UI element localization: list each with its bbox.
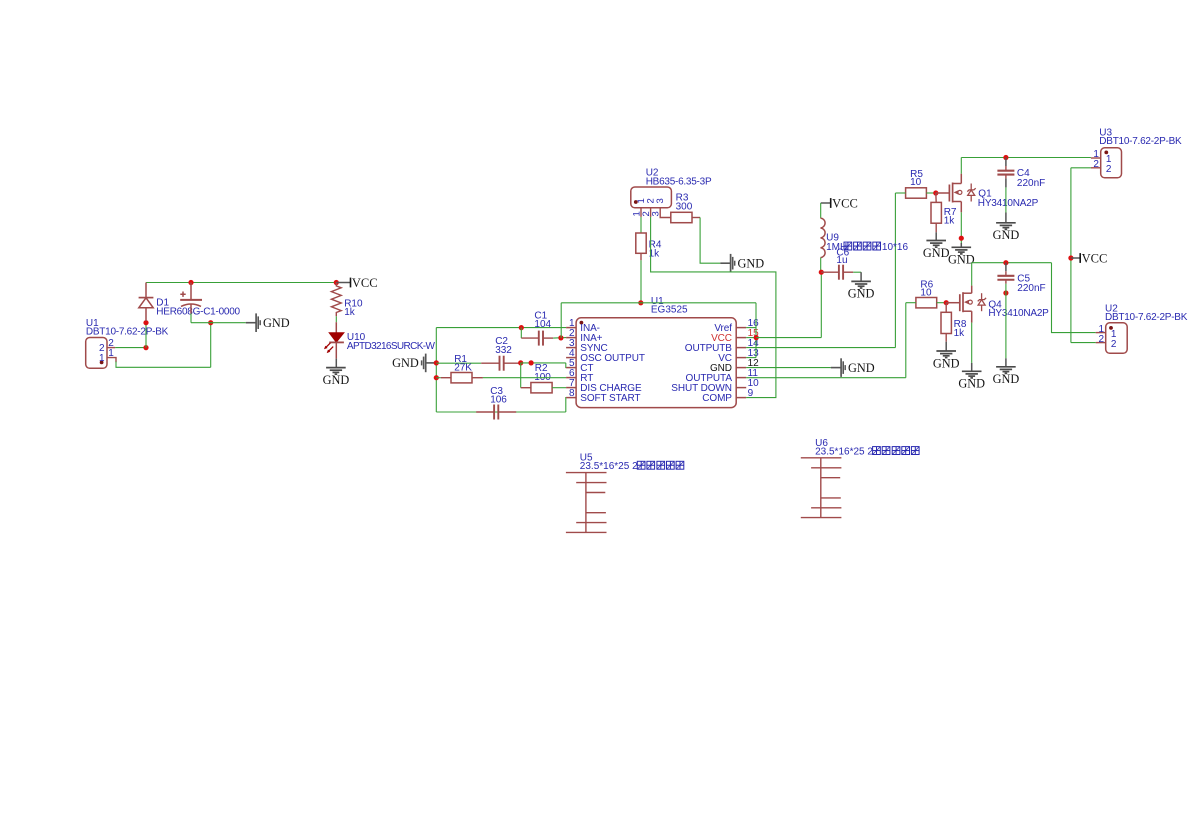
U1 pin 11 stub xyxy=(736,377,746,379)
wire D1 anode vertical xyxy=(145,321,147,348)
svg-text:HY3410NA2P: HY3410NA2P xyxy=(978,198,1039,209)
power flag VCC (U9) xyxy=(821,202,831,204)
svg-text:2: 2 xyxy=(1099,334,1105,345)
U1 pin 3 stub xyxy=(566,347,576,349)
op-amp/controller U1 EG3525 body xyxy=(576,318,736,408)
C5 ground lead xyxy=(1005,358,1007,367)
svg-text:DBT10-7.62-2P-BK: DBT10-7.62-2P-BK xyxy=(1099,136,1182,147)
U1 pin 10 stub xyxy=(736,387,746,389)
U1 pin-1 orientation dot xyxy=(580,321,584,325)
wire R1 left xyxy=(436,377,441,379)
resistor R4 body xyxy=(636,233,646,253)
ground earth GND (Q1 source) xyxy=(952,246,972,248)
svg-text:HY3410NA2P: HY3410NA2P xyxy=(988,308,1049,319)
wire Q1 source down xyxy=(960,212,962,243)
LED U10 xyxy=(335,322,337,332)
wire drain rail to U2 pin1 xyxy=(1052,263,1096,333)
svg-text:1: 1 xyxy=(99,353,105,364)
svg-text:1k: 1k xyxy=(344,307,356,318)
svg-text:VCC: VCC xyxy=(352,276,378,290)
connector U2 pin 2 stub xyxy=(650,208,652,217)
resistor R2 body xyxy=(531,383,552,393)
ground earth GND (R8) xyxy=(936,350,956,352)
connector U2b pin 1 stub xyxy=(1096,332,1106,334)
svg-text:10: 10 xyxy=(920,288,932,299)
C6 ground lead xyxy=(860,272,862,281)
capacitor C4 xyxy=(1005,166,1007,171)
svg-text:VCC: VCC xyxy=(832,196,858,210)
node junction C5 lower xyxy=(1003,290,1008,295)
wire pin1 riser to GND net xyxy=(210,323,212,368)
connector U2b pin-1 orientation dot xyxy=(1109,326,1113,330)
power flag VCC (right) xyxy=(1071,257,1080,259)
svg-text:APTD3216SURCK-W: APTD3216SURCK-W xyxy=(347,341,436,352)
svg-text:220nF: 220nF xyxy=(1017,283,1045,294)
svg-text:EG3525: EG3525 xyxy=(651,305,688,316)
wire bus vertical left of IC xyxy=(435,328,437,412)
svg-text:DBT10-7.62-2P-BK: DBT10-7.62-2P-BK xyxy=(86,327,169,338)
LED ground lead xyxy=(335,359,337,368)
wire GND net horizontal xyxy=(191,322,246,324)
connector U3 pin-1 orientation dot xyxy=(1104,151,1108,155)
wire VCC right riser xyxy=(1070,168,1072,343)
node junction pin2 / vref riser xyxy=(558,335,563,340)
connector U2 (HB635-6.35-3P) body xyxy=(631,187,672,208)
transistor Q4 HY3410NA2P xyxy=(946,302,960,304)
ground earth GND (C4) xyxy=(996,222,1016,224)
diode D1 xyxy=(145,283,147,298)
node junction C2 / R2 tap xyxy=(518,360,523,365)
capacitor C5 top lead xyxy=(1005,263,1007,272)
connector U2 pin 1 stub xyxy=(640,208,642,217)
wire C2 to CT xyxy=(521,362,566,364)
wire R1 to RT xyxy=(483,377,566,379)
wire R6 left xyxy=(906,302,916,304)
ground flag GND (top-left) xyxy=(246,322,256,324)
svg-text:220nF: 220nF xyxy=(1017,178,1045,189)
wire pin12 to GND xyxy=(746,367,831,369)
wire pin15 link xyxy=(746,337,756,339)
svg-text:COMP: COMP xyxy=(702,393,732,404)
svg-text:GND: GND xyxy=(848,361,875,375)
wire cap to GND net xyxy=(190,314,192,323)
U1 pin 5 stub xyxy=(566,367,576,369)
wire VCC rail top-left xyxy=(146,282,336,284)
svg-text:332: 332 xyxy=(495,345,512,356)
capacitor C4 top lead xyxy=(1005,158,1007,167)
wire CT jog xyxy=(565,363,567,368)
U1 pin 7 stub xyxy=(566,387,576,389)
svg-text:1k: 1k xyxy=(954,328,966,339)
connector U2 pin-1 orientation dot xyxy=(634,200,638,204)
wire VCC riser (U9 branch) xyxy=(820,272,822,337)
wire C1 to pin2 xyxy=(553,337,566,340)
connector U1 (DBT10-7.62-2P-BK) body xyxy=(86,338,107,369)
svg-text:3: 3 xyxy=(655,198,666,203)
inductor U9 top lead xyxy=(820,203,822,218)
resistor R4 bottom lead xyxy=(640,253,642,260)
node junction D1 anode net xyxy=(143,345,148,350)
wire R10 to LED xyxy=(335,316,337,322)
ground flag GND (pin12) xyxy=(831,367,841,369)
resistor R3 body xyxy=(671,212,692,222)
node junction U9 / C6 xyxy=(819,270,824,275)
U1 pin 1 stub xyxy=(566,327,576,329)
svg-text:23.5*16*25 2: 23.5*16*25 2 xyxy=(580,461,638,472)
connector U2 pin 3 stub xyxy=(660,208,671,218)
svg-text:GND: GND xyxy=(848,287,875,301)
node junction Q1 source xyxy=(959,236,964,241)
wire R2 to DIS CHARGE xyxy=(552,387,566,389)
svg-text:GND: GND xyxy=(923,246,950,260)
wire pin15 to VCC riser xyxy=(756,337,821,339)
wire C3 bottom horizontal xyxy=(436,411,566,413)
wire U2 pin2 to COMP xyxy=(651,217,776,398)
resistor R10 zigzag xyxy=(331,283,341,317)
U1 pin 8 stub xyxy=(566,397,576,399)
connector U1 pin 2 stub xyxy=(107,347,115,349)
U1 pin 12 stub xyxy=(736,367,746,369)
wire Q1 drain up xyxy=(960,158,962,174)
wire C4 down xyxy=(1005,187,1007,212)
Q1 source ground lead xyxy=(960,243,962,247)
node junction R4 / Vref wire xyxy=(638,300,643,305)
resistor R1 leads xyxy=(441,377,451,379)
node junction VCC / R10 xyxy=(334,280,339,285)
ground earth GND (C5) xyxy=(996,366,1016,368)
connector U2b pin 2 stub xyxy=(1096,342,1106,344)
ground flag GND (R3) xyxy=(720,262,730,264)
svg-text:2: 2 xyxy=(1106,164,1112,175)
svg-text:GND: GND xyxy=(958,377,985,391)
connector U1 pin 1 stub xyxy=(107,358,116,363)
svg-text:300: 300 xyxy=(676,201,693,212)
ground earth GND (Q4 source) xyxy=(962,370,982,372)
svg-text:8: 8 xyxy=(569,388,575,399)
wire pin13 link xyxy=(746,357,756,359)
wire C3 to SOFT START xyxy=(565,398,567,412)
wire drain top rail xyxy=(961,157,1091,159)
wire Vref/VC tie vertical xyxy=(755,303,757,358)
wire R2 riser xyxy=(520,363,522,388)
ground earth GND (C6) xyxy=(851,280,871,282)
resistor R7 bottom lead xyxy=(935,223,937,232)
node junction R1 tap xyxy=(434,375,439,380)
connector U3 (DBT10-7.62-2P-BK) body xyxy=(1101,148,1122,178)
capacitor C3 xyxy=(476,411,494,413)
svg-text:2: 2 xyxy=(1093,159,1099,170)
R7 ground lead xyxy=(935,232,937,240)
svg-text:104: 104 xyxy=(534,319,551,330)
svg-text:VCC: VCC xyxy=(1082,251,1108,265)
wire R4 to Vref net xyxy=(640,260,642,303)
node junction GND net xyxy=(208,320,213,325)
resistor R5 body xyxy=(906,188,927,198)
svg-text:HER608G-C1-0000: HER608G-C1-0000 xyxy=(156,306,240,317)
connector U2b (DBT10-7.62-2P-BK) body xyxy=(1106,323,1128,354)
heatsink U5 xyxy=(566,473,607,533)
resistor R8 top lead xyxy=(945,303,947,313)
svg-text:1: 1 xyxy=(1111,329,1117,340)
wire R2 left lead wire xyxy=(521,387,531,389)
polarized capacitor C? top lead xyxy=(190,283,192,300)
svg-text:23.5*16*25 2: 23.5*16*25 2 xyxy=(815,447,873,458)
node junction gate Q1 / R7 xyxy=(933,190,938,195)
wire U2 pin1 to R4 xyxy=(640,217,642,233)
resistor R6 body xyxy=(916,298,937,308)
svg-text:DBT10-7.62-2P-BK: DBT10-7.62-2P-BK xyxy=(1105,312,1188,323)
wire riser Vref to INA+ xyxy=(560,303,562,338)
svg-text:10: 10 xyxy=(910,177,922,188)
svg-text:GND: GND xyxy=(993,372,1020,386)
node junction VCC flag right xyxy=(1068,255,1073,260)
Q4 source ground lead xyxy=(971,363,973,371)
node junction C4 tap xyxy=(1003,155,1008,160)
wire Q4 drain rail xyxy=(972,262,1052,264)
svg-text:3: 3 xyxy=(651,211,662,216)
svg-text:SOFT START: SOFT START xyxy=(580,393,640,404)
U1 pin 6 stub xyxy=(566,377,576,379)
node junction D1 anode xyxy=(143,320,148,325)
connector U1 pin-1 orientation dot xyxy=(100,361,104,365)
node junction VCC pin15 xyxy=(754,335,759,340)
svg-text:GND: GND xyxy=(263,316,290,330)
wire pin2 to D1 xyxy=(115,347,146,349)
wire OUTPUTB riser xyxy=(894,193,896,348)
node junction GND flag xyxy=(434,360,439,365)
wire pin16 link xyxy=(746,327,756,329)
inductor U9 bottom lead xyxy=(820,258,822,273)
U1 pin 13 stub xyxy=(736,357,746,359)
capacitor C1 xyxy=(521,337,539,339)
svg-text:GND: GND xyxy=(948,253,975,267)
wire OUTPUTA riser xyxy=(905,303,907,378)
ground flag GND (left of R1, mirrored) xyxy=(426,362,436,364)
svg-text:GND: GND xyxy=(933,356,960,370)
ground earth GND (R7) xyxy=(926,240,946,242)
wire OUTPUTA horizontal xyxy=(746,377,906,379)
wire OUTPUTB horizontal xyxy=(746,347,895,349)
wire C1 riser xyxy=(520,328,522,339)
svg-text:2: 2 xyxy=(1111,339,1117,350)
connector U3 pin 1 stub xyxy=(1091,157,1101,159)
node junction C1 tap xyxy=(519,325,524,330)
wire U3 pin2 to VCC riser xyxy=(1071,167,1091,169)
svg-text:1u: 1u xyxy=(836,255,847,266)
svg-text:10*16: 10*16 xyxy=(882,242,909,253)
svg-text:GND: GND xyxy=(323,373,350,387)
U1 pin 9 stub xyxy=(736,397,746,399)
node junction VCC rail / cap xyxy=(188,280,193,285)
resistor R8 body xyxy=(941,312,951,333)
U1 pin 2 stub xyxy=(566,337,576,339)
wire U2b pin2 link xyxy=(1071,342,1096,344)
U1 pin 16 stub xyxy=(736,327,746,329)
svg-text:GND: GND xyxy=(993,228,1020,242)
polarized capacitor bottom lead xyxy=(190,304,192,314)
capacitor C5 xyxy=(1005,271,1007,276)
svg-text:1: 1 xyxy=(108,348,114,359)
inductor U9 coil xyxy=(821,218,826,258)
capacitor C4 lower gray lead xyxy=(1005,178,1007,187)
node junction C5 tap xyxy=(1003,260,1008,265)
resistor R8 bottom lead xyxy=(945,334,947,342)
ground earth GND (LED) xyxy=(326,367,346,369)
resistor R7 body xyxy=(931,202,941,223)
transistor Q1 HY3410NA2P xyxy=(936,192,950,194)
svg-text:GND: GND xyxy=(738,256,765,270)
wire R6 right to gate xyxy=(937,302,947,304)
node junction CT wire xyxy=(529,360,534,365)
svg-text:1k: 1k xyxy=(944,216,956,227)
wire Vref horizontal xyxy=(561,302,756,304)
wire C5 down xyxy=(1005,284,1007,359)
wire Q4 source down xyxy=(971,323,973,363)
polarized capacitor plates xyxy=(180,299,202,301)
svg-text:27K: 27K xyxy=(454,362,472,373)
wire R3 to GND xyxy=(700,218,720,264)
capacitor C6 xyxy=(821,271,839,273)
wire Q4 drain up xyxy=(971,263,973,286)
wire R5 right to gate xyxy=(926,192,935,194)
wire R5 left xyxy=(895,192,905,194)
U1 pin 14 stub xyxy=(736,347,746,349)
R8 ground lead xyxy=(945,342,947,351)
C4 ground lead xyxy=(1005,213,1007,223)
capacitor C2 xyxy=(481,362,499,364)
svg-text:GND: GND xyxy=(392,356,419,370)
node junction gate Q4 / R8 xyxy=(944,300,949,305)
svg-text:106: 106 xyxy=(490,394,507,405)
U1 pin 4 stub xyxy=(566,357,576,359)
connector U3 pin 2 stub xyxy=(1091,167,1101,169)
power flag VCC (left) xyxy=(336,282,350,284)
resistor R3 right lead xyxy=(692,217,700,219)
wire C6 to GND xyxy=(853,271,861,273)
U1 pin 15 stub xyxy=(736,337,746,339)
svg-text:HB635-6.35-3P: HB635-6.35-3P xyxy=(646,176,712,187)
heatsink U6 xyxy=(801,458,842,518)
wire GND to C2 xyxy=(436,362,481,364)
wire R7 top lead xyxy=(935,193,937,202)
wire pin1 down-jog xyxy=(116,362,211,368)
wire pin1 horizontal xyxy=(436,327,566,329)
resistor R1 body xyxy=(451,373,472,383)
